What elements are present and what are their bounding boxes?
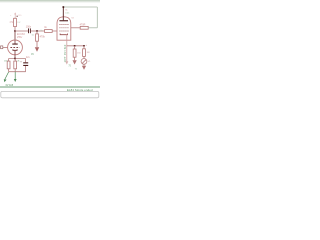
svg-text:100n: 100n xyxy=(26,25,32,28)
svg-text:470k: 470k xyxy=(40,35,46,38)
svg-text:8R: 8R xyxy=(87,52,90,54)
svg-text:1W: 1W xyxy=(17,22,20,24)
svg-text:255v: 255v xyxy=(17,36,23,39)
svg-text:0V: 0V xyxy=(31,53,34,56)
svg-text:OPT PRI 5k0: OPT PRI 5k0 xyxy=(64,44,67,62)
